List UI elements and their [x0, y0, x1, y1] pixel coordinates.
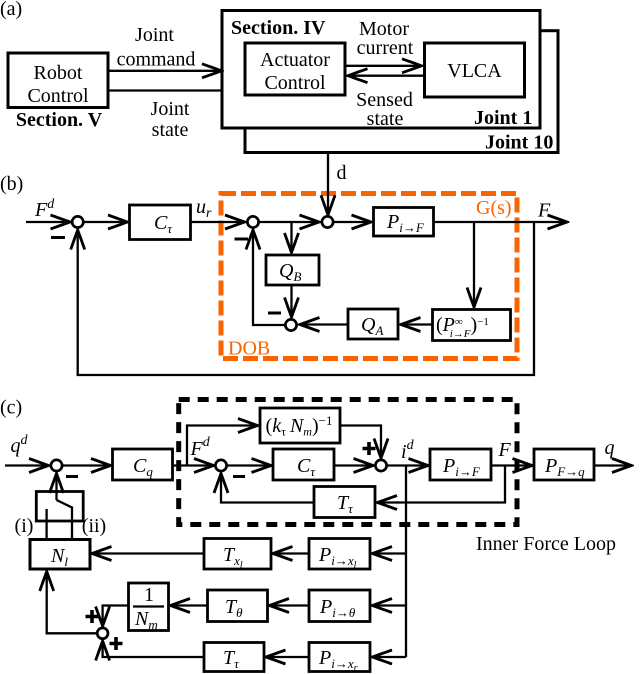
svg-text:q: q [605, 437, 615, 459]
block Q_A [348, 309, 398, 339]
wire QA to b4 [300, 323, 349, 325]
summing junction b1 [72, 216, 83, 227]
svg-text:F: F [537, 200, 551, 222]
wire P_itheta to Ttheta [269, 604, 309, 606]
wire trunk to P_ixl [372, 552, 406, 554]
wire joint command [108, 70, 222, 72]
Section IV box (Joint 1) [222, 11, 540, 129]
plus at c3 [363, 442, 376, 455]
minus at junction c2 [233, 475, 245, 478]
wire output q [594, 464, 632, 466]
wire c3 to P [387, 464, 429, 466]
Actuator Control box [245, 43, 345, 95]
block P_i->xr [309, 643, 370, 672]
wire sensed state [348, 75, 425, 77]
block C_q [113, 449, 173, 480]
wire Ttaub to cb [103, 641, 204, 658]
svg-text:(c): (c) [0, 397, 22, 419]
block (P^inf_i->F)^-1 [433, 310, 511, 341]
block T_xl [204, 539, 271, 570]
wire branch up to kN block [187, 426, 258, 466]
minus at junction b4 [268, 312, 281, 315]
wire b3 to P [333, 221, 371, 223]
wire c2 to Ctau [227, 464, 272, 466]
wire outer feedback [78, 222, 534, 375]
svg-text:Joint: Joint [151, 98, 190, 120]
svg-text:command: command [117, 49, 196, 71]
summing junction c3 [375, 460, 386, 471]
wire Nm to cb [103, 606, 129, 627]
svg-text:state: state [152, 119, 189, 141]
svg-text:(a): (a) [0, 0, 22, 20]
block (k_tau N_m)^-1 [260, 408, 340, 443]
wire P_ixl to Txl [273, 552, 310, 554]
summing junction cb [97, 628, 108, 639]
wire Ctau to c3 [334, 464, 374, 466]
svg-text:Control: Control [264, 72, 326, 94]
block 1/N_m [129, 583, 169, 631]
wire c1 to Cq [62, 464, 111, 466]
svg-text:Joint 10: Joint 10 [485, 132, 553, 154]
svg-text:(b): (b) [0, 173, 23, 195]
wire Txl to Nl [92, 552, 205, 554]
block P_F->q [534, 449, 594, 480]
wire Pinv to QA [401, 323, 433, 325]
VLCA box [425, 43, 525, 97]
Robot Control box [8, 53, 108, 108]
wire branch down to Pinv [473, 222, 475, 308]
wire P_ixr to Ttaub [266, 656, 310, 658]
switch box [36, 492, 83, 522]
wire Ttheta to Nm [170, 604, 208, 606]
wire b2 to b3 [259, 221, 320, 223]
wire motor current [345, 65, 422, 67]
minus at junction b1 [51, 236, 65, 239]
svg-text:Section. IV: Section. IV [231, 17, 326, 39]
summing junction c1 [51, 460, 62, 471]
svg-text:Joint 1: Joint 1 [474, 107, 532, 129]
block T_tau b [204, 643, 264, 672]
wire F branch down to Ttau [377, 466, 505, 503]
minus at junction b2 [235, 238, 249, 241]
black dashed box inner force loop [179, 400, 517, 525]
wire branch into QB [290, 222, 292, 253]
svg-text:Robot: Robot [34, 62, 83, 84]
wire b4 to b2 feedback [253, 230, 285, 326]
svg-text:VLCA: VLCA [447, 60, 502, 82]
block P_i->F [374, 208, 434, 237]
block P_i->theta [309, 590, 370, 622]
orange dashed box G(s) [221, 194, 517, 359]
svg-text:1: 1 [144, 584, 154, 606]
svg-text:current: current [357, 37, 414, 59]
wire Cq to c2 [173, 464, 215, 466]
svg-text:G(s): G(s) [476, 197, 512, 219]
svg-text:(ii): (ii) [82, 515, 106, 537]
block P_i->xl [309, 539, 370, 570]
wire kN to c3 [340, 426, 381, 459]
svg-text:state: state [367, 108, 404, 130]
svg-text:Control: Control [27, 85, 89, 107]
svg-text:Section. V: Section. V [16, 109, 103, 131]
wire P to output F [434, 221, 568, 223]
plus lower at cb [110, 637, 123, 650]
minus at junction c1 [66, 475, 78, 478]
wire cb to Nl [47, 571, 97, 633]
block N_l [30, 540, 90, 570]
wire input Fd [26, 221, 71, 223]
wire trunk to P_itheta [372, 604, 406, 606]
wire Ttau to c2 [221, 473, 314, 503]
summing junction b2 [247, 216, 258, 227]
block C_tau c [273, 449, 334, 480]
svg-text:Inner Force Loop: Inner Force Loop [476, 533, 616, 555]
svg-text:F: F [498, 439, 512, 461]
block T_theta [208, 590, 268, 622]
summing junction b4 [285, 319, 296, 330]
svg-text:d: d [337, 162, 347, 184]
switch lever [57, 500, 73, 540]
block T_tau inner [314, 487, 375, 518]
block P_i->F c [430, 449, 491, 480]
wire input qd [5, 464, 49, 466]
svg-text:(i): (i) [15, 515, 34, 537]
wire QB to b4 [290, 285, 292, 318]
svg-text:Actuator: Actuator [260, 49, 330, 71]
summing junction c2 [215, 460, 226, 471]
wire P to PFq [491, 464, 533, 466]
wire d input [327, 154, 329, 215]
block Q_B [266, 255, 319, 285]
plus upper at cb [86, 610, 99, 623]
svg-text:DOB: DOB [228, 338, 270, 360]
wire b1 to Ctau [83, 221, 128, 223]
wire id trunk down [405, 466, 407, 658]
block C_tau [130, 205, 191, 240]
wire joint state [108, 89, 222, 91]
svg-text:Joint: Joint [135, 24, 174, 46]
Joint 10 box [245, 31, 558, 153]
switch contact i [45, 509, 47, 540]
wire Ctau to b2 [191, 221, 246, 223]
wire switch common to c1 [55, 473, 57, 500]
wire trunk to P_ixr [372, 656, 406, 658]
summing junction b3 [322, 216, 333, 227]
